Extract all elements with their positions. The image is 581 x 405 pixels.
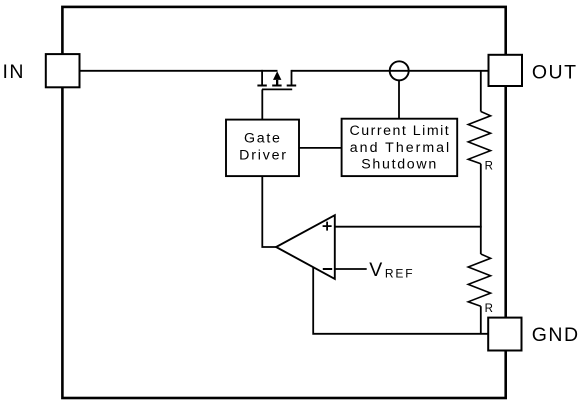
pin OUT (489, 55, 523, 86)
minus input mark (323, 268, 332, 270)
gate plate (262, 88, 292, 90)
svg-text:VREF: VREF (369, 259, 414, 281)
transistor Q1 PMOS pass element (257, 70, 296, 90)
wire current sense to current limit block (398, 80, 400, 119)
wire IN to pass transistor source (79, 70, 278, 72)
IC boundary (62, 7, 505, 398)
plus input mark (323, 225, 332, 227)
source lead (261, 70, 263, 86)
block Current Limit and Thermal Shutdown (342, 119, 458, 176)
pin GND (488, 318, 521, 351)
svg-text:Shutdown: Shutdown (361, 156, 438, 172)
block Gate Driver (226, 120, 299, 177)
resistor R2 (468, 254, 490, 306)
svg-text:Driver: Driver (239, 147, 288, 163)
current sense circle (390, 61, 409, 80)
wire amp common to GND node (313, 267, 489, 334)
svg-text:and Thermal: and Thermal (350, 140, 451, 156)
source contact bar (257, 85, 266, 87)
wire drain to OUT (292, 70, 490, 72)
svg-text:Gate: Gate (244, 131, 282, 147)
drain lead (291, 70, 293, 86)
drain contact bar (287, 85, 297, 87)
svg-text:R: R (485, 161, 493, 173)
op-amp U1 error amplifier (276, 215, 335, 279)
svg-text:R: R (485, 303, 493, 315)
resistor R1 (468, 112, 490, 164)
wire Gate Driver to error amp input (262, 176, 276, 247)
wire OUT node down to R1 (480, 71, 482, 112)
svg-text:Current Limit: Current Limit (350, 123, 451, 139)
svg-text:IN: IN (3, 61, 26, 83)
body arrow (273, 71, 281, 80)
wire Gate Driver to Current Limit block (299, 147, 342, 149)
svg-text:GND: GND (532, 324, 580, 346)
wire error amp + input to feedback node (335, 226, 482, 228)
wire R2 to GND node (480, 306, 482, 334)
wire gate to Gate Driver (261, 89, 263, 119)
svg-text:OUT: OUT (532, 62, 578, 84)
pin IN (46, 54, 80, 87)
wire R1 to R2 feedback junction (480, 164, 482, 254)
wire error amp - input to VREF (335, 268, 367, 270)
body contact bar (272, 85, 281, 87)
